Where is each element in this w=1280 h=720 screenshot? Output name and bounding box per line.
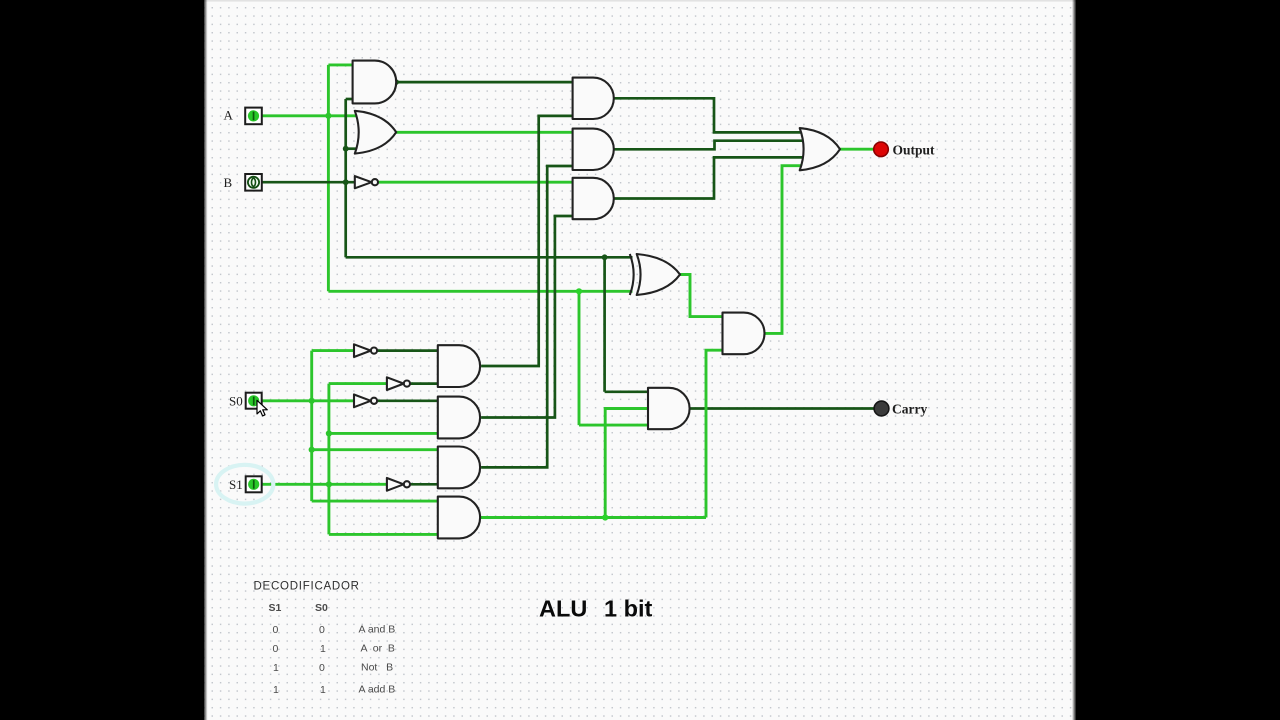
wire D3 output route up to U5 bottom input (dark) [481,166,572,467]
and-gate U4 [573,78,614,119]
wire into U9 bottom input [579,424,648,427]
and-gate U1 [353,61,397,104]
svg-text:Not B: Not B [361,661,393,673]
selection halo around S1 [216,465,273,504]
wire U10 output to Output LED (bright) [840,148,874,151]
node S1 junction on S1 row [326,481,332,487]
wire to NOT N1 input [312,349,354,352]
svg-text:A: A [224,108,234,123]
input pin A [245,108,262,125]
node B junction on XOR row [602,254,608,260]
wire to XOR U7 upper input [346,256,633,259]
LED Carry (off, dark) [874,401,889,416]
and-gate D1 [438,345,480,387]
svg-text:DECODIFICADOR: DECODIFICADOR [254,581,360,593]
wire S1 pin to NOT N4 input [262,483,387,486]
and-gate U6 [573,178,614,219]
svg-text:0: 0 [319,624,325,636]
svg-text:S1: S1 [269,602,282,614]
not-gate N2 [387,377,404,390]
net A (value 1, bright green) [262,65,648,425]
svg-text:1: 1 [273,662,279,674]
LED Output (lit red) [874,142,889,157]
wire stub to OR U2 bottom input [346,147,358,150]
node A junction on A row [325,113,331,119]
wire vertical A riser x=328.4 [327,65,330,291]
wire into U9 top input [605,390,648,393]
not-gate N4 [387,478,404,491]
node U1 output dot [394,79,399,84]
wire to AND D4 top input [312,500,438,503]
svg-text:A or B: A or B [361,642,395,654]
wire riser x=706 to U8 bottom input [706,350,723,517]
wire to AND D4 bottom input [329,533,438,536]
node S0 junction at D3 row [309,447,315,453]
or-gate U2 [355,111,396,154]
net B (value 0, dark green) [262,99,648,392]
and-gate U8 [723,313,765,355]
svg-text:S0: S0 [229,393,243,408]
wire NOT N4 output to D3 bottom input (dark) [410,483,438,486]
wire to AND U1 top input [328,63,352,66]
wire U9 output to Carry LED (dark) [690,407,874,410]
node S1 junction at D2 row [326,430,332,436]
wire vertical x=579 to U9 bottom input [578,291,581,425]
svg-text:S0: S0 [315,602,328,614]
wire S0 riser x=311.7 [310,351,313,502]
input pin B [245,174,262,191]
and-gate U5 [573,129,614,170]
wire U8 output route to OR U10 input4 (bright) [765,166,807,334]
and-gate D3 [438,447,480,489]
svg-text:B: B [224,175,233,190]
or-gate U10 [800,128,840,170]
svg-text:1: 1 [320,643,326,655]
node B junction at OR input [343,146,349,152]
node A junction on XOR input row [576,288,582,294]
wire to AND U1 bottom input [346,98,353,101]
and-gate D4 [438,497,480,539]
canvas [204,0,1076,720]
net S1 (value 1, bright) [262,384,438,535]
wire U2 output to U5 top input (bright) [396,131,573,134]
svg-text:0: 0 [319,662,325,674]
wire B pin to NOT U3 input [262,181,355,184]
svg-text:A add B: A add B [359,684,396,696]
wire U3 output to U6 top input (bright) [378,181,573,184]
wire U5 output route to OR U10 input2 (dark) [614,141,807,150]
svg-text:ALU: ALU [539,596,587,622]
wire NOT N1 output to D1 top input (dark) [377,349,438,352]
and-gate D2 [438,397,480,439]
wire d4 output run [481,516,706,519]
wire to AND D2 bottom input [329,432,438,435]
svg-text:S1: S1 [229,477,243,492]
wire vertical x=604.6 down to U9 top input [603,257,606,392]
svg-text:1: 1 [320,684,326,696]
wire NOT N3 output to D2 top input (dark) [377,399,438,402]
wire U4 output route to OR U10 input1 (dark) [614,98,807,132]
wire S0 pin to NOT N3 input [262,399,354,402]
wire S1 riser x=328.9 [327,384,330,535]
svg-text:0: 0 [273,624,279,636]
mouse cursor [257,400,267,416]
input pin S0 [246,393,262,409]
xor-gate U7 [637,254,680,295]
node B junction on B row [343,179,349,185]
wire to NOT N2 input [329,382,387,385]
svg-text:Carry: Carry [892,402,927,417]
input pin S1 [246,476,262,492]
svg-text:A and B: A and B [359,623,396,635]
wire to AND D3 top input [312,448,438,451]
and-gate U9 [648,388,690,429]
not-gate N1 [354,344,371,357]
node S0 junction on S0 row [309,398,315,404]
wire riser x=605.2 to U9 middle input [605,409,648,518]
node d4 junction [602,514,608,520]
wire NOT N2 output to D1 bottom input (dark) [410,382,438,385]
wire D1 output route up to U4 bottom input (dark) [481,116,572,366]
not-gate U3 [355,176,372,188]
wire A pin to OR U2 top input [262,114,357,117]
not-gate N3 [354,395,371,408]
svg-text:Output: Output [893,143,936,158]
wire D2 output route up to U6 bottom input (dark) [481,216,572,418]
wire to XOR U7 lower input [328,290,632,293]
net S0 (value 1, bright) [262,351,438,502]
wire U1 output to U4 top input (dark) [396,81,573,84]
svg-text:0: 0 [273,643,279,655]
net D4 decoder select (bright): d4 output to U9 mid and U8 bottom [481,350,723,517]
wire vertical B riser x=345.7 [344,99,347,257]
wire U6 output route to OR U10 input3 (dark) [614,157,807,198]
svg-text:1: 1 [273,684,279,696]
wire XOR U7 output to U8 top input (bright) [680,275,723,317]
svg-text:1 bit: 1 bit [604,596,652,622]
